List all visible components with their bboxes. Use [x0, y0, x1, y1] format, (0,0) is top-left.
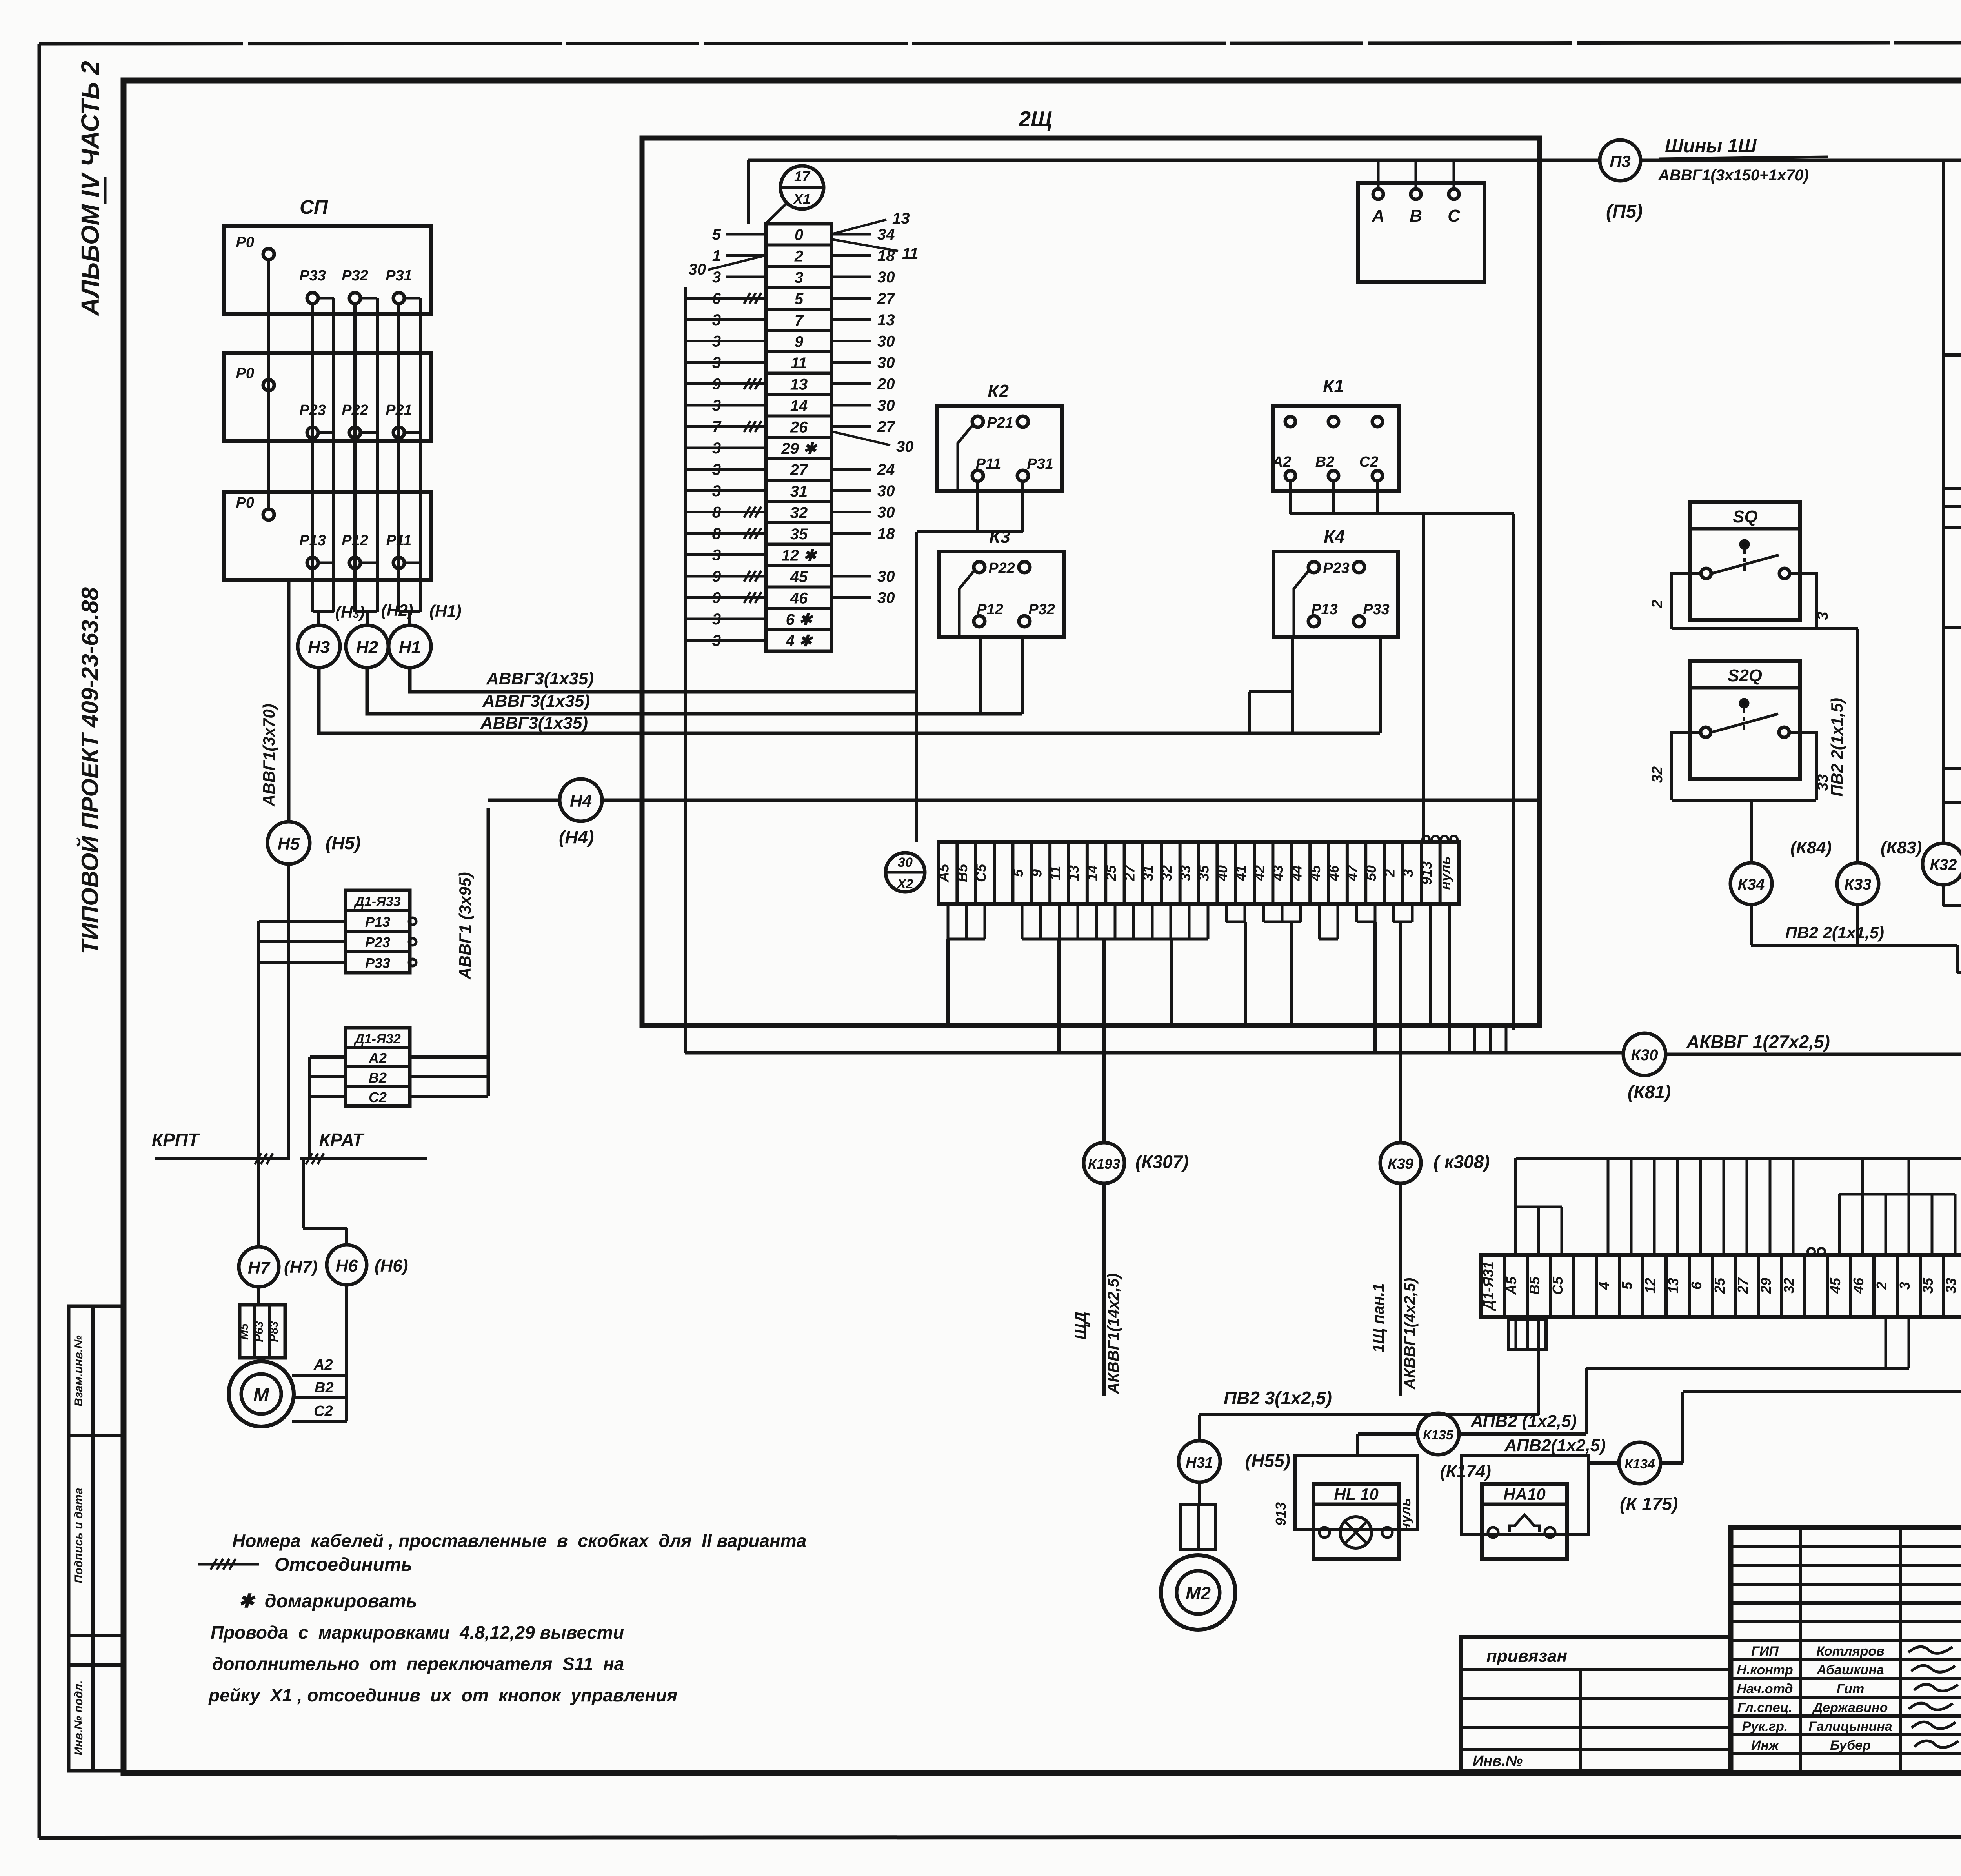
svg-text:2Щ: 2Щ: [1019, 107, 1052, 131]
junction КРПТ: [152, 1130, 290, 1164]
svg-text:Абашкина: Абашкина: [1816, 1663, 1884, 1678]
margin text album: [76, 61, 105, 317]
cable marker К34: [1730, 838, 1832, 904]
svg-text:АПВ2(1х2,5): АПВ2(1х2,5): [1504, 1436, 1606, 1455]
svg-text:(Н55): (Н55): [1245, 1450, 1290, 1471]
svg-text:14: 14: [790, 397, 808, 415]
svg-text:30: 30: [896, 438, 914, 455]
svg-text:6: 6: [1688, 1281, 1705, 1290]
svg-text:В2: В2: [369, 1070, 387, 1086]
svg-text:(Н7): (Н7): [284, 1257, 318, 1277]
svg-text:9: 9: [795, 333, 804, 351]
terminal column X1: [766, 224, 831, 651]
svg-text:АКВВГ1(4х2,5): АКВВГ1(4х2,5): [1401, 1278, 1419, 1390]
svg-text:Р22: Р22: [988, 560, 1015, 577]
svg-text:2: 2: [1649, 600, 1666, 608]
wire Р0 chain: [267, 260, 270, 509]
svg-text:АПВ2 (1х2,5): АПВ2 (1х2,5): [1470, 1412, 1577, 1431]
wire АВС drop: [1512, 514, 1515, 1030]
svg-text:Н1: Н1: [399, 638, 421, 657]
wire Н4 horizontal: [488, 799, 1539, 802]
svg-text:А2: А2: [368, 1050, 387, 1066]
svg-text:Р11: Р11: [976, 456, 1001, 472]
margin stamp column: [69, 1306, 123, 1771]
svg-text:Шины 1Ш: Шины 1Ш: [1665, 136, 1757, 156]
svg-text:(К84): (К84): [1790, 838, 1832, 857]
wire bus lower АКВВГ to К30: [685, 1051, 1623, 1055]
wire ПВ2 3 feeder: [1199, 1388, 1539, 1441]
junction КРАТ: [300, 1130, 427, 1164]
svg-text:13: 13: [1066, 865, 1082, 881]
svg-text:(К 175): (К 175): [1620, 1494, 1678, 1514]
svg-text:С: С: [1448, 206, 1461, 226]
svg-text:6 ✱: 6 ✱: [786, 611, 813, 628]
wire 35: [1943, 485, 1961, 507]
cable marker К134: [1589, 1392, 1683, 1514]
X1 left bracket bus: [684, 287, 687, 1053]
lamp Н2: [346, 625, 388, 668]
wires Д1-Я31 below-left: [1508, 1317, 1546, 1415]
svg-text:Н6: Н6: [336, 1256, 358, 1276]
svg-text:913: 913: [1419, 861, 1435, 885]
note line 5: [212, 1654, 624, 1674]
cable marker К32: [1923, 160, 1961, 906]
svg-text:Р13: Р13: [365, 914, 390, 930]
svg-text:12: 12: [1642, 1278, 1658, 1294]
svg-text:30: 30: [877, 504, 895, 521]
cable marker К39: [1380, 1143, 1490, 1183]
svg-text:13: 13: [1665, 1278, 1681, 1294]
svg-text:32: 32: [1649, 766, 1666, 783]
svg-text:33: 33: [1177, 865, 1193, 881]
svg-text:2: 2: [1874, 1282, 1890, 1290]
wires Д1-Я31 extra stubs: [1631, 1158, 1961, 1255]
svg-text:46: 46: [1326, 865, 1342, 881]
svg-text:27: 27: [790, 462, 808, 479]
svg-text:25: 25: [1103, 865, 1119, 881]
svg-text:(П5): (П5): [1606, 201, 1643, 222]
cable АВВГ3(1х35) from Н1: [410, 668, 917, 692]
svg-text:Р31: Р31: [386, 267, 412, 284]
svg-text:Р32: Р32: [342, 267, 368, 284]
cable АВВГ3(1х35) from Н3: [319, 668, 1380, 733]
node Р0 section1: [236, 234, 274, 260]
svg-text:нуль: нуль: [1397, 1498, 1413, 1532]
svg-text:✱ домаркировать: ✱ домаркировать: [238, 1591, 417, 1612]
svg-text:Р0: Р0: [236, 495, 254, 511]
svg-text:3: 3: [712, 269, 721, 286]
bus bar box АВС: [1358, 160, 1484, 282]
svg-text:17: 17: [794, 168, 811, 184]
svg-text:35: 35: [790, 526, 808, 543]
cable marker К33: [1837, 838, 1922, 904]
svg-text:11: 11: [1047, 866, 1063, 880]
svg-text:33: 33: [1943, 1278, 1959, 1294]
svg-text:АВВГ1 (3х95): АВВГ1 (3х95): [456, 872, 474, 979]
svg-text:К33: К33: [1844, 876, 1871, 893]
svg-text:В2: В2: [315, 1379, 334, 1396]
lamp Н3: [298, 625, 340, 668]
wire Н6 to motor phases: [292, 1285, 347, 1421]
svg-text:3: 3: [1815, 611, 1831, 620]
svg-text:Взам.инв.№: Взам.инв.№: [72, 1335, 85, 1406]
wire Н5 down to КРПТ: [287, 864, 290, 1159]
svg-text:3: 3: [1897, 1282, 1913, 1290]
svg-text:0: 0: [795, 226, 803, 244]
svg-text:В5: В5: [954, 864, 970, 882]
cable marker К135: [1358, 1412, 1586, 1481]
svg-text:ПВ2 2(1х1,5): ПВ2 2(1х1,5): [1785, 923, 1884, 942]
svg-text:К1: К1: [1323, 376, 1344, 396]
svg-text:HL 10: HL 10: [1334, 1485, 1379, 1503]
svg-text:(К307): (К307): [1135, 1152, 1189, 1172]
wires Д1-Я31 comb А5В5С5: [1515, 1158, 1562, 1255]
svg-text:S2Q: S2Q: [1728, 666, 1762, 685]
svg-text:С2: С2: [1359, 454, 1379, 470]
svg-text:АВВГ1(3х70): АВВГ1(3х70): [260, 704, 278, 807]
svg-text:ГИП: ГИП: [1751, 1644, 1779, 1659]
svg-text:Подпись и дата: Подпись и дата: [72, 1488, 85, 1583]
svg-text:30: 30: [877, 568, 895, 585]
terminal box СП section 3: [224, 492, 431, 580]
wire АКВВГ continue: [1666, 1054, 1961, 1158]
cable 1Щ пан.1 label: [1370, 1183, 1419, 1396]
svg-text:Гл.спец.: Гл.спец.: [1737, 1700, 1792, 1715]
svg-text:X1: X1: [793, 191, 811, 207]
svg-text:К30: К30: [1631, 1046, 1658, 1064]
svg-text:К134: К134: [1624, 1457, 1655, 1472]
svg-text:33: 33: [1815, 774, 1831, 791]
svg-text:(Н3): (Н3): [335, 603, 365, 621]
svg-text:27: 27: [1121, 864, 1137, 881]
motor М2: [1161, 1555, 1235, 1630]
wire Н7 to motor terminals: [257, 1287, 260, 1305]
wire К32 down: [1943, 885, 1961, 1158]
wire to Н6: [303, 1159, 347, 1245]
svg-text:46: 46: [1850, 1277, 1866, 1294]
cable marker К30: [1623, 1032, 1830, 1102]
svg-text:А5: А5: [936, 864, 952, 883]
svg-text:Р31: Р31: [1027, 456, 1053, 472]
lamp Н5: [267, 822, 360, 864]
svg-text:Р0: Р0: [236, 234, 254, 251]
wire 32: [1943, 464, 1961, 488]
note line 3: [238, 1591, 417, 1612]
svg-text:(К81): (К81): [1628, 1082, 1671, 1102]
svg-text:К4: К4: [1324, 526, 1345, 547]
svg-text:13: 13: [877, 311, 895, 329]
svg-text:К193: К193: [1088, 1156, 1120, 1172]
svg-text:КРАТ: КРАТ: [319, 1130, 365, 1150]
lamp Н6: [327, 1245, 408, 1285]
relay К4: [1273, 526, 1398, 637]
terminal box СП section 1: [224, 196, 431, 314]
svg-text:20: 20: [877, 376, 895, 393]
cable АВВГ1(3х70) vertical: [260, 580, 289, 822]
svg-text:А2: А2: [1272, 454, 1292, 470]
svg-text:26: 26: [790, 419, 808, 436]
lamp Н1: [389, 625, 431, 668]
wires X2 913 and нуль: [1423, 836, 1457, 1053]
svg-text:1Щ пан.1: 1Щ пан.1: [1370, 1283, 1387, 1352]
svg-text:3: 3: [1400, 869, 1416, 877]
svg-text:В5: В5: [1526, 1276, 1543, 1295]
terminals Р13 Р12 Р11: [299, 532, 420, 568]
svg-text:АВВГ3(1х35): АВВГ3(1х35): [482, 691, 590, 711]
svg-text:рейку X1 , отсоединив их от: рейку X1 , отсоединив их от кнопок управ…: [208, 1685, 677, 1705]
svg-text:SQ: SQ: [1733, 507, 1758, 526]
wires Д1-Я32 right to cable АВВГ1(3х95): [410, 808, 488, 1096]
svg-text:Бубер: Бубер: [1830, 1738, 1871, 1753]
svg-text:30: 30: [877, 354, 895, 371]
svg-text:Н7: Н7: [248, 1258, 271, 1277]
wires X2 comb group 45-50: [1319, 904, 1375, 1053]
svg-text:Державино: Державино: [1812, 1700, 1888, 1715]
svg-text:27: 27: [877, 419, 895, 436]
svg-text:Д1-Я31: Д1-Я31: [1480, 1261, 1496, 1311]
svg-text:М: М: [253, 1385, 269, 1405]
svg-text:5: 5: [1010, 869, 1026, 877]
wires К2 down: [917, 481, 1023, 842]
svg-text:44: 44: [1288, 865, 1304, 881]
svg-text:( к308): ( к308): [1433, 1152, 1490, 1172]
svg-text:В2: В2: [1315, 454, 1335, 470]
svg-text:11: 11: [902, 245, 919, 262]
note line 1: [232, 1530, 806, 1551]
wires X2 comb group 1: [948, 904, 985, 1025]
svg-text:30: 30: [689, 261, 706, 278]
svg-text:АВВГ3(1х35): АВВГ3(1х35): [480, 713, 588, 733]
relay К3: [939, 526, 1064, 637]
svg-text:Р33: Р33: [299, 267, 326, 284]
svg-text:30: 30: [877, 269, 895, 286]
lamp Н31: [1179, 1441, 1290, 1482]
svg-text:27: 27: [877, 290, 895, 308]
wire bus upper stub: [1525, 1024, 1539, 1027]
X1 extra mark 30: [689, 255, 766, 278]
svg-text:ТИПОВОЙ ПРОЕКТ 409-23-63.88: ТИПОВОЙ ПРОЕКТ 409-23-63.88: [76, 587, 103, 954]
table привязан: [1461, 1637, 1731, 1770]
svg-text:46: 46: [790, 590, 808, 607]
terminal strip X2: [936, 842, 1459, 904]
svg-text:42: 42: [1252, 865, 1268, 881]
svg-text:АКВВГ1(14х2,5): АКВВГ1(14х2,5): [1105, 1273, 1122, 1394]
svg-text:32: 32: [790, 504, 808, 522]
svg-text:7: 7: [795, 312, 804, 329]
wire К33 К34 join ПВ2 2: [1751, 904, 1961, 1158]
svg-text:30: 30: [877, 397, 895, 414]
svg-text:ПВ2 3(1х2,5): ПВ2 3(1х2,5): [1224, 1388, 1332, 1408]
svg-text:2: 2: [794, 248, 803, 265]
svg-text:С2: С2: [314, 1403, 333, 1419]
svg-text:Р0: Р0: [236, 365, 254, 382]
svg-text:А5: А5: [1503, 1276, 1519, 1295]
svg-text:К2: К2: [988, 381, 1009, 401]
svg-text:4 ✱: 4 ✱: [786, 633, 813, 650]
svg-text:32: 32: [1159, 865, 1175, 881]
wires Д1-Я31 below cells 43 44: [1683, 1317, 1961, 1392]
svg-text:Н3: Н3: [308, 638, 330, 657]
wires X2 comb group 2: [1022, 904, 1208, 1053]
svg-text:нуль: нуль: [1437, 856, 1453, 890]
svg-text:Гит: Гит: [1837, 1681, 1865, 1696]
svg-text:(Н4): (Н4): [559, 827, 594, 847]
svg-text:4: 4: [1596, 1282, 1612, 1290]
note line 4: [211, 1622, 624, 1643]
svg-text:34: 34: [877, 226, 895, 243]
svg-text:45: 45: [790, 568, 808, 586]
node Р0 section3: [236, 495, 274, 520]
svg-text:913: 913: [1273, 1502, 1289, 1526]
svg-text:1: 1: [712, 247, 721, 265]
svg-text:30: 30: [877, 482, 895, 500]
terminal box СП section 2: [224, 353, 431, 441]
terminal id circle 30/Х2: [886, 853, 925, 892]
svg-text:27: 27: [1735, 1277, 1751, 1294]
svg-text:3: 3: [795, 269, 803, 286]
svg-text:41: 41: [1233, 865, 1249, 881]
wires Д1-Я31 comb main: [1516, 1158, 1961, 1255]
svg-text:Р23: Р23: [1323, 560, 1350, 577]
indicator lamp HL10: [1273, 1456, 1418, 1559]
svg-text:КРПТ: КРПТ: [152, 1130, 200, 1150]
wires К3 down: [981, 639, 1022, 714]
wires X2 comb group 2-3: [1393, 904, 1412, 1142]
svg-text:12 ✱: 12 ✱: [781, 547, 818, 564]
svg-text:29: 29: [1758, 1278, 1774, 1294]
node Р0 section2: [236, 365, 274, 391]
svg-text:М5: М5: [238, 1323, 251, 1340]
wire to Н7: [257, 1159, 260, 1247]
terminal cells М5 Р63 Р83: [238, 1305, 285, 1358]
svg-text:31: 31: [790, 483, 808, 500]
title block left grid: [1731, 1528, 1961, 1773]
svg-text:30: 30: [877, 590, 895, 607]
svg-text:5: 5: [795, 291, 804, 308]
note line 6: [208, 1685, 677, 1705]
cable АВВГ3(1х35) from Н2: [367, 668, 1022, 714]
svg-text:Р12: Р12: [977, 601, 1003, 618]
svg-text:Р63: Р63: [253, 1321, 266, 1342]
svg-text:Д1-Я32: Д1-Я32: [353, 1032, 400, 1046]
svg-text:Н5: Н5: [278, 834, 300, 853]
svg-text:Н.контр: Н.контр: [1737, 1663, 1793, 1678]
svg-text:Р23: Р23: [365, 934, 390, 950]
switch S2Q: [1690, 661, 1800, 779]
svg-text:Нач.отд: Нач.отд: [1737, 1681, 1793, 1696]
svg-text:К32: К32: [1930, 856, 1957, 873]
svg-text:29 ✱: 29 ✱: [781, 440, 818, 457]
cable marker П3 Шины 1Ш: [1539, 136, 1961, 222]
svg-text:Галицынина: Галицынина: [1808, 1719, 1892, 1734]
wires Д1-Я31 comb mid: [1839, 1158, 1955, 1255]
title block signatures: [1737, 1644, 1961, 1753]
svg-text:30: 30: [898, 855, 913, 870]
lamp Н7: [239, 1247, 318, 1287]
wires Д1-Я31 below cells 2 3: [1586, 1317, 1909, 1368]
svg-text:Р83: Р83: [267, 1321, 280, 1342]
svg-text:Инж: Инж: [1751, 1738, 1779, 1753]
svg-text:С5: С5: [973, 864, 989, 882]
lamp Н4: [559, 779, 602, 847]
terminals Р23 Р22 Р21: [299, 402, 420, 438]
svg-text:Номера кабелей , проставленны: Номера кабелей , проставленные в скобках…: [232, 1530, 806, 1551]
svg-text:Котляров: Котляров: [1816, 1644, 1884, 1659]
relay К2: [937, 381, 1062, 491]
svg-text:Н2: Н2: [356, 638, 378, 657]
svg-text:НА10: НА10: [1503, 1485, 1545, 1503]
svg-text:5: 5: [1619, 1281, 1635, 1290]
svg-text:Рук.гр.: Рук.гр.: [1742, 1719, 1788, 1734]
fuse cells below Н31: [1181, 1482, 1216, 1549]
panel box 2Щ: [642, 107, 1539, 1025]
svg-text:35: 35: [1920, 1277, 1936, 1294]
svg-text:АКВВГ 1(27х2,5): АКВВГ 1(27х2,5): [1686, 1032, 1830, 1052]
wires X2 comb group 40-44: [1226, 904, 1301, 1025]
svg-text:С2: С2: [369, 1089, 387, 1105]
svg-text:5: 5: [712, 226, 721, 243]
svg-text:30: 30: [877, 333, 895, 350]
svg-text:13: 13: [892, 210, 910, 227]
wire ПВ2 2 vertical to К33: [1828, 629, 1858, 863]
svg-text:(К83): (К83): [1881, 838, 1922, 857]
svg-text:Х2: Х2: [896, 877, 913, 892]
svg-text:14: 14: [1084, 865, 1101, 881]
svg-text:Инв.№: Инв.№: [1473, 1753, 1523, 1769]
motor М: [229, 1361, 294, 1427]
title block frame: [1731, 1528, 1961, 1773]
X1 right tick wires and counts: [831, 210, 919, 607]
wires S2Q sides: [1649, 732, 1831, 863]
svg-text:Р33: Р33: [365, 955, 390, 971]
svg-text:АВВГ3(1х35): АВВГ3(1х35): [486, 669, 594, 688]
svg-text:Инв.№ подл.: Инв.№ подл.: [72, 1680, 85, 1755]
svg-text:АЛЬБОМ IV ЧАСТЬ 2: АЛЬБОМ IV ЧАСТЬ 2: [76, 61, 104, 317]
svg-text:(Н2): (Н2): [381, 601, 413, 619]
margin text project number: [76, 587, 103, 954]
svg-text:Н31: Н31: [1186, 1455, 1213, 1471]
svg-text:привязан: привязан: [1486, 1647, 1567, 1666]
svg-text:К135: К135: [1423, 1428, 1454, 1443]
wire 12: [1943, 600, 1961, 646]
terminal strip Д1-Я31: [1480, 1248, 1961, 1317]
svg-text:СП: СП: [300, 196, 328, 218]
note line 2 disconnect symbol: [198, 1554, 412, 1575]
svg-text:40: 40: [1214, 865, 1230, 881]
wire 5: [1943, 327, 1961, 355]
terminal id circle 17/X1: [766, 166, 824, 224]
svg-text:А2: А2: [313, 1357, 333, 1373]
wires Д1-Я32 left: [310, 1057, 346, 1159]
svg-text:Р33: Р33: [1363, 601, 1390, 618]
cable ЩД label: [1071, 1183, 1122, 1396]
horn НА10: [1461, 1436, 1606, 1559]
svg-text:43: 43: [1270, 865, 1286, 881]
terminal block Д1-Я33: [346, 890, 416, 973]
wires Д1-Я33 to left: [259, 921, 346, 1159]
wires SQ sides: [1649, 573, 1858, 629]
svg-text:(Н5): (Н5): [326, 833, 360, 853]
svg-text:45: 45: [1307, 865, 1323, 881]
svg-text:М2: М2: [1186, 1583, 1211, 1603]
svg-text:Р21: Р21: [987, 415, 1013, 431]
svg-text:50: 50: [1363, 865, 1379, 881]
X1 left tick wires and counts: [685, 226, 766, 650]
svg-text:Отсоединить: Отсоединить: [275, 1554, 412, 1575]
svg-text:(Н6): (Н6): [375, 1256, 408, 1276]
svg-text:П3: П3: [1610, 152, 1631, 171]
svg-text:ЩД: ЩД: [1071, 1312, 1090, 1340]
